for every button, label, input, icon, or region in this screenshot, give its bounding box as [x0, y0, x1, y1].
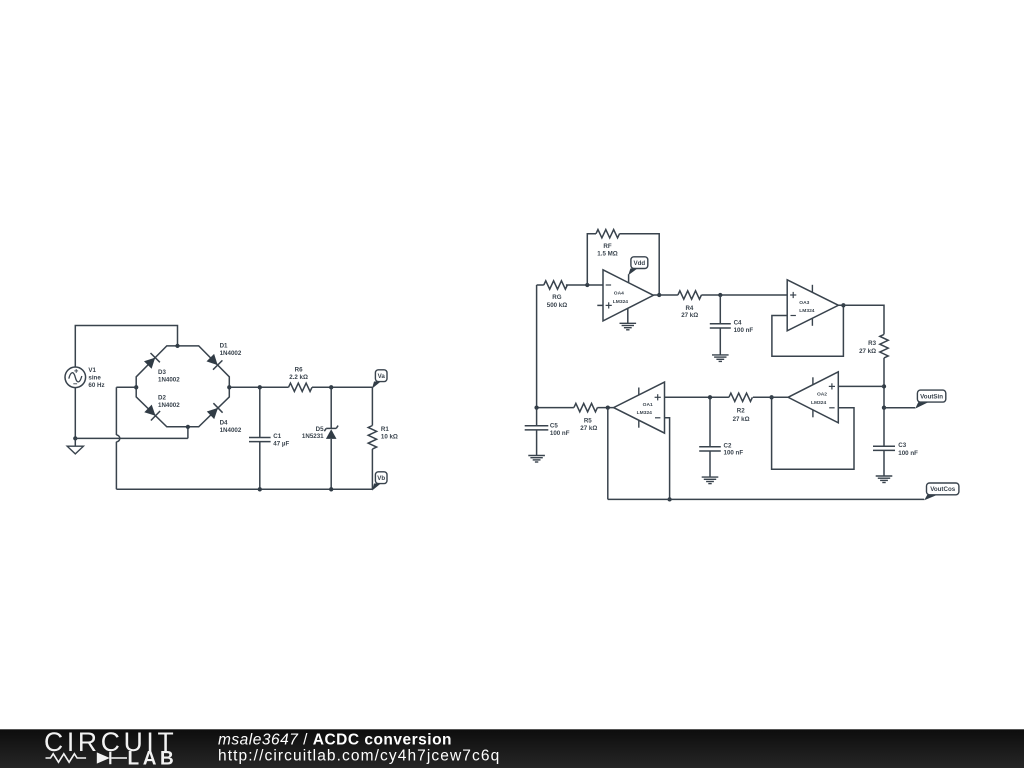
- wire D5 anode lead: [330, 439, 332, 489]
- ground (C5): [528, 455, 545, 457]
- OA4 non-inverting input stub: [597, 304, 603, 306]
- svg-text:R5: R5: [584, 417, 592, 424]
- svg-text:100 nF: 100 nF: [724, 450, 744, 457]
- wire OA3 output to R3: [838, 305, 884, 334]
- OA1 top power pin stub: [638, 388, 640, 396]
- junction dot C1 bottom: [258, 487, 262, 491]
- resistor RF: [596, 230, 620, 238]
- voltage source V1 (sine 60 Hz): [65, 367, 86, 388]
- junction dot OA1 output tap: [606, 405, 610, 409]
- svg-text:1N4002: 1N4002: [158, 402, 180, 409]
- junction dot bridge bottom node: [186, 425, 190, 429]
- svg-text:100 nF: 100 nF: [734, 327, 754, 334]
- svg-text:27 kΩ: 27 kΩ: [681, 312, 698, 319]
- wire R1 upper lead: [371, 387, 373, 425]
- svg-text:Va: Va: [378, 373, 386, 380]
- wire C1 lower lead: [259, 442, 261, 490]
- op-amp OA1 (LM324, mirrored): [614, 382, 665, 433]
- svg-text:LM324: LM324: [811, 400, 827, 406]
- wire OA2 non-inverting input: [838, 385, 884, 387]
- junction dot C2 tap: [708, 395, 712, 399]
- svg-text:RG: RG: [552, 294, 561, 301]
- ground (OA4 negative supply): [620, 322, 637, 324]
- CircuitLab logo resistor glyph: [46, 754, 87, 762]
- OA2 top power pin stub: [812, 377, 814, 385]
- svg-text:LM324: LM324: [799, 308, 815, 314]
- svg-text:OA4: OA4: [614, 290, 624, 296]
- OA1 bottom power pin stub: [638, 420, 640, 428]
- junction dot D5 bottom: [329, 487, 333, 491]
- svg-text:100 nF: 100 nF: [898, 450, 918, 457]
- svg-text:27 kΩ: 27 kΩ: [733, 416, 750, 423]
- OA3 bottom power pin stub: [811, 318, 813, 326]
- svg-text:D3: D3: [158, 369, 166, 376]
- net flag Va: [372, 382, 381, 389]
- wire bottom rail (Vb net): [116, 488, 372, 490]
- junction dot OA3 output / feedback: [841, 303, 845, 307]
- op-amp OA3 (LM324): [787, 280, 838, 331]
- wire VoutCos rail: [608, 498, 924, 500]
- junction dot bridge right node: [227, 385, 231, 389]
- ground (C3): [876, 475, 893, 477]
- ground (earth symbol under V1): [74, 438, 76, 446]
- junction dot C4 tap: [718, 293, 722, 297]
- svg-text:VoutSin: VoutSin: [920, 393, 943, 400]
- svg-text:VoutCos: VoutCos: [930, 486, 956, 493]
- wire OA1 output drop to VoutCos rail: [607, 408, 609, 500]
- wire C2 upper lead: [709, 397, 711, 447]
- diode D3 (left node to top node): [144, 358, 155, 369]
- junction dot bridge left node: [134, 385, 138, 389]
- svg-text:C5: C5: [550, 422, 558, 429]
- svg-text:D1: D1: [220, 343, 228, 350]
- diode D1 (top node to right node): [207, 354, 218, 365]
- capacitor C2: [699, 446, 721, 448]
- svg-text:27 kΩ: 27 kΩ: [580, 425, 597, 432]
- svg-text:sine: sine: [88, 374, 101, 381]
- wire RG left corner vertical (C5 net): [536, 285, 538, 408]
- svg-text:C3: C3: [898, 442, 906, 449]
- net flag VoutCos: [924, 495, 937, 501]
- OA2 inverting input sign: [829, 407, 834, 409]
- wire C5 upper lead: [536, 408, 538, 426]
- resistor R1: [368, 426, 376, 450]
- svg-text:OA2: OA2: [817, 392, 827, 398]
- OA3 top power pin stub: [811, 285, 813, 293]
- svg-text:100 nF: 100 nF: [550, 430, 570, 437]
- junction dot C1 top tap: [258, 385, 262, 389]
- wire C1 upper lead: [259, 387, 261, 437]
- bridge octagon body (D1-D4 rectifier ring): [136, 346, 229, 427]
- capacitor C1: [249, 437, 271, 439]
- OA3 non-inverting input sign: [790, 294, 796, 296]
- svg-text:1.5 MΩ: 1.5 MΩ: [597, 251, 617, 258]
- net flag Vdd: [628, 269, 637, 276]
- resistor R5: [574, 403, 598, 411]
- svg-text:10 kΩ: 10 kΩ: [381, 434, 398, 441]
- svg-text:27 kΩ: 27 kΩ: [859, 348, 876, 355]
- svg-text:msale3647 / ACDC conversion: msale3647 / ACDC conversion: [218, 732, 452, 749]
- junction dot D5 top tap: [329, 385, 333, 389]
- svg-text:LAB: LAB: [128, 749, 178, 768]
- svg-text:D4: D4: [220, 420, 228, 427]
- diode D2 (left node to bottom node): [144, 405, 155, 416]
- footer black bar: [0, 729, 1024, 768]
- ground (C4): [712, 354, 729, 356]
- svg-text:2.2 kΩ: 2.2 kΩ: [289, 374, 308, 381]
- resistor R3: [880, 334, 888, 358]
- wire R6 to Va node: [312, 386, 372, 388]
- wire OA4 top power pin to Vdd: [628, 274, 630, 283]
- wire OA4 bottom power pin to ground: [627, 309, 629, 324]
- junction dot at V1 / ground node: [73, 436, 77, 440]
- OA2 non-inverting input sign: [829, 385, 835, 387]
- junction dot OA2 output / R2: [769, 395, 773, 399]
- CircuitLab logo diode glyph: [97, 752, 110, 763]
- wire OA2 feedback loop (output to inverting input): [772, 397, 854, 469]
- svg-text:1N5231: 1N5231: [302, 433, 324, 440]
- svg-text:R3: R3: [868, 340, 876, 347]
- capacitor C5: [525, 425, 549, 427]
- resistor R4: [678, 291, 702, 299]
- svg-text:RF: RF: [603, 243, 611, 250]
- capacitor C4: [710, 323, 731, 325]
- junction dot RF tap: [585, 283, 589, 287]
- svg-text:R6: R6: [295, 366, 303, 373]
- svg-text:http://circuitlab.com/cy4h7jce: http://circuitlab.com/cy4h7jcew7c6q: [218, 748, 500, 765]
- wire R4 to OA3 non-inverting input: [701, 294, 787, 296]
- svg-text:500 kΩ: 500 kΩ: [547, 302, 567, 309]
- svg-text:60 Hz: 60 Hz: [88, 382, 104, 389]
- wire R5 to C5 junction: [537, 407, 574, 409]
- junction dot OA1 feedback on VoutCos rail: [667, 497, 671, 501]
- resistor R6: [289, 383, 313, 391]
- net flag Vb: [372, 484, 381, 491]
- wire C4 upper lead: [719, 295, 721, 324]
- svg-text:Vb: Vb: [377, 475, 385, 482]
- wire C4 lower lead: [719, 328, 721, 355]
- OA2 bottom power pin stub: [812, 410, 814, 418]
- wire OA2 output to R2: [753, 396, 788, 398]
- op-amp OA4 (LM324): [603, 270, 653, 321]
- svg-text:R1: R1: [381, 426, 389, 433]
- wire bridge right node to R6: [229, 386, 288, 388]
- net flag VoutSin: [915, 402, 928, 409]
- wire bridge left node to bottom rail (with hop over ground wire): [116, 387, 136, 489]
- svg-text:LM324: LM324: [637, 410, 653, 416]
- svg-text:1N4002: 1N4002: [220, 350, 242, 357]
- svg-text:Vdd: Vdd: [634, 260, 646, 267]
- wire RG to OA4 inverting input: [566, 284, 603, 286]
- junction dot bridge top node: [175, 344, 179, 348]
- svg-text:C1: C1: [273, 433, 281, 440]
- svg-text:OA3: OA3: [799, 300, 809, 306]
- wire D5 cathode lead: [330, 387, 332, 428]
- wire C3 lower lead: [883, 450, 885, 476]
- wire RF feedback loop: [587, 234, 659, 295]
- svg-text:C4: C4: [734, 319, 742, 326]
- OA1 inverting input sign: [655, 417, 660, 419]
- op-amp OA2 (LM324, mirrored): [788, 372, 838, 423]
- svg-text:D5: D5: [316, 426, 324, 433]
- wire OA1 output to R5: [597, 407, 613, 409]
- OA1 non-inverting input sign: [655, 396, 661, 398]
- wire ground junction to bridge bottom node: [75, 427, 188, 439]
- wire V1 top to bridge top node: [75, 326, 177, 368]
- wire R2 to OA1 non-inverting input: [665, 396, 729, 398]
- wire OA3 feedback loop (output to inverting input): [772, 305, 844, 356]
- capacitor C3: [873, 445, 895, 447]
- OA4 inverting input sign: [606, 284, 611, 286]
- diode D4 (bottom node to right node): [207, 408, 218, 419]
- junction dot C5 / RG net: [534, 405, 538, 409]
- junction dot VoutSin tap: [882, 406, 886, 410]
- junction dot OA2 + input tap: [882, 384, 886, 388]
- wire C3 upper lead: [883, 408, 885, 447]
- svg-text:47 µF: 47 µF: [273, 441, 289, 448]
- svg-text:OA1: OA1: [643, 402, 653, 408]
- wire R3 lower lead to VoutSin node: [883, 358, 885, 408]
- svg-text:D2: D2: [158, 394, 166, 401]
- resistor R2: [729, 393, 753, 401]
- wire V1 bottom to ground junction: [74, 388, 76, 439]
- wire C5 lower lead: [536, 430, 538, 456]
- wire C2 lower lead: [709, 451, 711, 477]
- ground (C2): [702, 476, 719, 478]
- resistor RG: [544, 281, 568, 289]
- svg-text:1N4002: 1N4002: [158, 376, 180, 383]
- wire VoutSin stub: [884, 407, 915, 409]
- junction dot OA4 output / RF: [657, 293, 661, 297]
- wire OA4 output to R4: [653, 294, 678, 296]
- OA3 inverting input sign: [791, 315, 796, 317]
- svg-text:LM324: LM324: [613, 299, 629, 305]
- svg-text:V1: V1: [88, 367, 96, 374]
- wire RG left lead: [537, 284, 544, 286]
- svg-text:1N4002: 1N4002: [220, 427, 242, 434]
- svg-text:R2: R2: [737, 408, 745, 415]
- zener diode D5 (cathode up): [326, 429, 337, 439]
- wire OA1 inverting input to VoutCos rail: [665, 418, 670, 500]
- OA4 non-inverting input sign: [606, 304, 612, 306]
- wire R1 lower lead: [371, 449, 373, 489]
